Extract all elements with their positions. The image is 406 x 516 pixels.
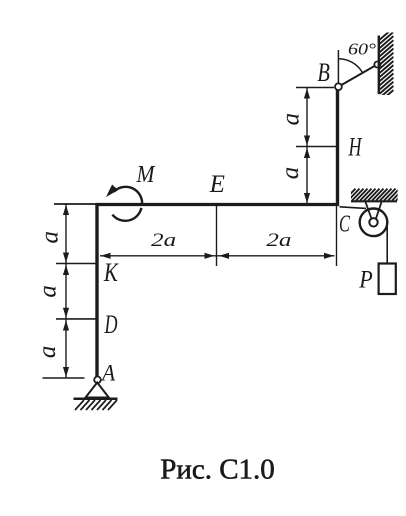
arrow down at H: [304, 136, 310, 146]
extension line below C: [336, 206, 338, 266]
ground hatching at A: [75, 400, 117, 410]
vertical reference line above B: [337, 50, 339, 84]
right dimension line B to C: [306, 88, 308, 205]
tick at D: [56, 318, 96, 320]
top right wall line: [378, 36, 380, 95]
rope C to pulley: [340, 207, 367, 209]
pulley hub: [369, 218, 377, 226]
svg-text:a: a: [277, 167, 304, 180]
arrow right at E: [205, 253, 215, 259]
arrow up below D: [63, 321, 69, 331]
arrow down at C: [304, 193, 310, 203]
left column A to corner: [95, 203, 98, 377]
pin at B: [335, 83, 342, 90]
arrow right at C: [324, 253, 334, 259]
moment M arc lower part: [112, 208, 141, 221]
top right wall hatching: [379, 28, 393, 102]
horizontal beam corner to C: [96, 203, 340, 206]
svg-text:P: P: [358, 267, 372, 294]
svg-text:a: a: [34, 285, 61, 298]
pulley bracket right: [376, 202, 382, 219]
svg-text:M: M: [136, 162, 157, 188]
weight P box: [379, 264, 396, 295]
arrow up at beam: [63, 205, 69, 215]
moment M arc: [114, 187, 142, 204]
svg-text:D: D: [104, 310, 118, 339]
svg-text:2a: 2a: [266, 230, 291, 251]
arrow left at E: [219, 253, 229, 259]
tick at A: [43, 377, 85, 379]
svg-text:Рис. С1.0: Рис. С1.0: [160, 454, 275, 486]
left dimension line: [65, 204, 67, 378]
pulley wheel: [360, 209, 388, 237]
dimension line 2a+2a: [100, 255, 335, 257]
arrow left at corner: [101, 253, 111, 259]
right column C to B: [336, 87, 339, 206]
arrow down at K: [63, 253, 69, 263]
arrow down at D: [63, 308, 69, 318]
rope down to weight: [386, 219, 388, 264]
tick below E: [216, 206, 218, 266]
rod B to wall: [338, 64, 378, 87]
ground line at A: [74, 398, 118, 401]
arrow up below H: [304, 148, 310, 158]
svg-text:a: a: [277, 113, 304, 126]
beam left extension line: [54, 203, 97, 205]
ceiling hatching: [344, 189, 406, 201]
tick at H: [296, 146, 338, 148]
svg-text:60°: 60°: [348, 40, 376, 59]
svg-text:a: a: [37, 231, 64, 244]
ceiling line above pulley: [351, 200, 397, 202]
moment M arrowhead: [106, 185, 118, 198]
wall pin circle: [374, 62, 380, 68]
svg-text:B: B: [317, 58, 330, 87]
svg-text:C: C: [339, 212, 351, 238]
svg-text:H: H: [348, 133, 363, 162]
arrow down at A: [63, 367, 69, 377]
svg-text:E: E: [209, 171, 225, 198]
arrow up below K: [63, 265, 69, 275]
angle arc 60: [338, 59, 362, 73]
svg-text:2a: 2a: [151, 230, 176, 251]
extension line at B level: [296, 87, 334, 89]
pin support A triangle: [86, 383, 109, 398]
pin support A circle: [94, 377, 101, 384]
tick at K: [56, 263, 96, 265]
svg-text:A: A: [100, 361, 116, 386]
svg-text:K: K: [103, 258, 119, 287]
pulley bracket left: [366, 202, 372, 219]
arrow up at B: [304, 89, 310, 99]
svg-text:a: a: [34, 346, 61, 359]
